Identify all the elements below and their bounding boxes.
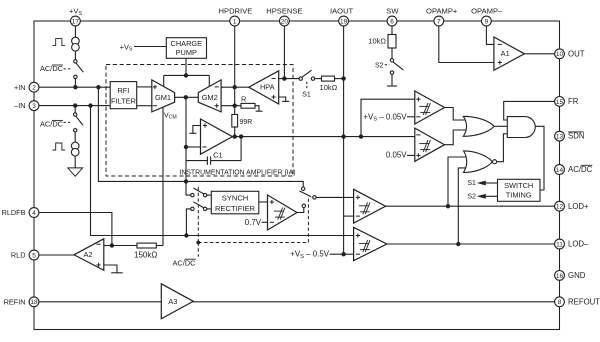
svg-text:S2: S2 xyxy=(375,62,384,69)
svg-text:–IN: –IN xyxy=(14,101,25,110)
svg-text:C1: C1 xyxy=(213,150,222,159)
svg-text:OPAMP+: OPAMP+ xyxy=(426,7,458,16)
svg-text:GM1: GM1 xyxy=(155,93,171,102)
svg-text:CHARGE: CHARGE xyxy=(170,39,202,48)
svg-text:HPA: HPA xyxy=(260,82,275,91)
svg-text:AC/DC: AC/DC xyxy=(173,258,197,267)
svg-text:9: 9 xyxy=(485,18,489,25)
svg-text:SW: SW xyxy=(386,7,399,16)
svg-text:REFOUT: REFOUT xyxy=(568,297,600,306)
svg-text:3: 3 xyxy=(32,103,36,110)
svg-text:RFI: RFI xyxy=(117,86,129,95)
svg-text:5: 5 xyxy=(32,252,36,259)
svg-text:0.7V: 0.7V xyxy=(245,218,262,227)
svg-text:RLDFB: RLDFB xyxy=(2,208,26,217)
svg-text:10kΩ: 10kΩ xyxy=(368,37,386,46)
svg-text:2: 2 xyxy=(32,85,36,92)
svg-text:IAOUT: IAOUT xyxy=(330,7,354,16)
svg-text:INSTRUMENTATION AMPLIFIER (IA): INSTRUMENTATION AMPLIFIER (IA) xyxy=(179,169,295,176)
svg-text:99R: 99R xyxy=(240,119,253,126)
svg-text:GM2: GM2 xyxy=(202,93,218,102)
svg-text:14: 14 xyxy=(556,167,564,174)
svg-text:REFIN: REFIN xyxy=(4,297,26,306)
svg-text:SDN: SDN xyxy=(568,132,584,141)
svg-text:7: 7 xyxy=(437,18,441,25)
svg-text:+VS – 0.05V: +VS – 0.05V xyxy=(363,112,407,122)
svg-text:R: R xyxy=(241,95,246,104)
svg-text:20: 20 xyxy=(281,18,289,25)
svg-text:LOD+: LOD+ xyxy=(568,202,589,211)
svg-text:17: 17 xyxy=(72,18,80,25)
svg-text:19: 19 xyxy=(340,18,348,25)
svg-text:OUT: OUT xyxy=(568,49,585,58)
svg-text:S2: S2 xyxy=(467,194,476,201)
svg-text:1: 1 xyxy=(233,18,237,25)
svg-text:PUMP: PUMP xyxy=(176,48,197,57)
svg-text:HPDRIVE: HPDRIVE xyxy=(219,7,253,16)
svg-text:AC/DC: AC/DC xyxy=(568,165,593,174)
svg-text:A1: A1 xyxy=(501,49,510,58)
svg-text:8: 8 xyxy=(558,299,562,306)
svg-text:150kΩ: 150kΩ xyxy=(134,251,157,260)
svg-text:A3: A3 xyxy=(168,297,177,306)
svg-text:16: 16 xyxy=(556,273,564,280)
svg-text:FILTER: FILTER xyxy=(111,97,136,106)
svg-text:RECTIFIER: RECTIFIER xyxy=(215,204,256,213)
svg-text:LOD–: LOD– xyxy=(568,240,589,249)
svg-text:SWITCH: SWITCH xyxy=(504,181,533,190)
svg-text:6: 6 xyxy=(390,18,394,25)
svg-text:FR: FR xyxy=(568,97,579,106)
svg-text:A2: A2 xyxy=(83,250,92,259)
svg-text:OPAMP–: OPAMP– xyxy=(471,7,503,16)
svg-text:AC/DC: AC/DC xyxy=(40,120,64,129)
svg-text:AC/DC: AC/DC xyxy=(40,64,64,73)
svg-text:15: 15 xyxy=(556,99,564,106)
svg-text:0.05V: 0.05V xyxy=(386,151,407,160)
svg-text:11: 11 xyxy=(556,241,563,248)
svg-text:SYNCH: SYNCH xyxy=(222,194,249,203)
svg-text:S1: S1 xyxy=(467,180,476,187)
svg-text:10: 10 xyxy=(556,51,564,58)
svg-text:12: 12 xyxy=(556,204,564,211)
svg-text:18: 18 xyxy=(30,299,38,306)
svg-text:S1: S1 xyxy=(302,92,311,99)
svg-text:4: 4 xyxy=(32,210,36,217)
svg-text:13: 13 xyxy=(556,134,564,141)
svg-text:RLD: RLD xyxy=(11,251,26,260)
svg-text:+VS – 0.5V: +VS – 0.5V xyxy=(290,250,329,260)
svg-text:HPSENSE: HPSENSE xyxy=(266,7,302,16)
svg-text:+IN: +IN xyxy=(14,83,26,92)
svg-text:10kΩ: 10kΩ xyxy=(320,83,338,92)
svg-text:GND: GND xyxy=(568,271,586,280)
svg-text:TIMING: TIMING xyxy=(506,191,532,200)
